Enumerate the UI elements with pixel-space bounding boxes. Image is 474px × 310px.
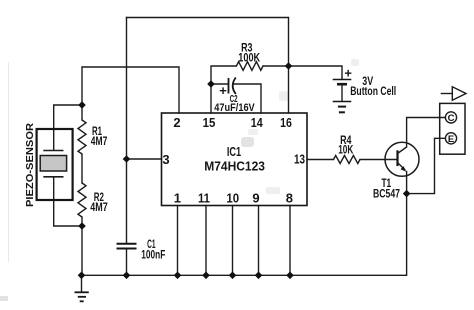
resistor R1 [78,120,86,154]
wire node pin3 branch [127,158,162,160]
wire ground stub [81,275,83,291]
svg-text:1: 1 [174,190,181,205]
terminal E circle [445,133,456,144]
wire collector to connector C [407,118,446,148]
ground under battery [333,102,352,113]
resistor R2 [78,183,86,217]
wire pin1 stub [177,206,179,276]
wire left vertical VCC to C1 [126,18,128,244]
transistor base bar [396,150,398,166]
piezo ceramic disc [40,156,66,172]
transistor collector diagonal [398,147,407,154]
node piezo/R2 [78,222,86,230]
terminal C circle [445,112,456,123]
transistor emitter arrowhead [401,166,407,172]
svg-text:2: 2 [173,115,180,130]
svg-text:4M7: 4M7 [91,134,108,148]
wire piezo bottom electrode [54,177,82,226]
wire pin16 stub [288,66,290,113]
wire ground rail with right riser to emitter node [82,194,407,276]
svg-text:BC547: BC547 [373,187,400,201]
battery BT1 plus plate [333,79,352,81]
node emitter/ground [403,190,411,198]
svg-text:15: 15 [203,115,216,130]
node rail/C1 [123,272,131,280]
svg-text:100nF: 100nF [141,247,165,261]
svg-text:14: 14 [251,115,264,130]
wire R1 top stub [81,105,83,120]
capacitor C1 [117,243,137,245]
IC U1 box [162,113,308,206]
svg-text:+: + [344,66,352,81]
svg-text:Button Cell: Button Cell [350,84,396,98]
transistor Q1 circle [385,142,419,176]
output connector box [440,103,465,154]
wire pin13 to R4 [307,159,334,161]
wire pin10 stub [232,206,234,276]
scan artifact line left edge [8,62,10,262]
node R3/pin16/battery [285,62,293,70]
wire pin8 stub [289,206,291,276]
wire pin11 stub [205,206,207,276]
node rail/pin9 [255,272,263,280]
wire emitter to junction [406,172,408,194]
svg-text:C: C [448,113,455,124]
piezo sensor box [37,129,73,200]
wire R4 to base [360,159,398,161]
node rail/pin8 [286,272,294,280]
wire R2 bottom to ground rail [81,217,83,275]
svg-text:8: 8 [286,190,293,205]
wire pin15 riser to R3 left [211,66,236,113]
wire top rail to R3-right node [127,18,289,67]
scan artifact smudges [0,59,359,301]
wire junction to connector E [407,138,446,193]
node pin3/VCC [123,155,131,163]
output arrow [441,93,453,95]
svg-text:11: 11 [198,190,210,205]
svg-text:E: E [448,134,454,145]
svg-text:100K: 100K [238,51,260,65]
svg-text:47uF/16V: 47uF/16V [214,102,255,114]
wire battery minus to ground symbol [341,85,343,101]
svg-text:13: 13 [294,152,305,167]
node rail/pin1 [174,272,182,280]
wire C1 to ground rail [126,249,128,276]
resistor R3 [236,62,263,71]
svg-text:9: 9 [252,190,259,205]
svg-text:3: 3 [162,152,169,167]
node rail/pin10 [229,272,237,280]
svg-text:16: 16 [280,115,292,130]
node rail/ground [78,272,86,280]
svg-text:M74HC123: M74HC123 [204,158,265,173]
wire piezo top electrode [54,105,82,150]
wire pin9 stub [258,206,260,276]
wire R3 right to node [263,65,289,67]
svg-text:10K: 10K [338,143,353,157]
svg-text:IC1: IC1 [227,144,241,159]
svg-text:10: 10 [226,190,239,205]
wire piezo/R1 node to pin 2 [82,67,179,113]
svg-text:+: + [219,83,227,98]
wire C2 right to pin14 [234,84,261,113]
node piezo/R1/pin2 [78,101,86,109]
ground main [75,292,89,301]
transistor emitter diagonal [398,163,406,171]
battery BT1 minus plate [337,83,347,86]
svg-text:4M7: 4M7 [90,200,108,214]
piezo top plate [43,150,63,152]
resistor R4 [334,156,361,164]
piezo bottom plate [43,176,63,178]
svg-text:PIEZO-SENSOR: PIEZO-SENSOR [24,123,36,207]
wire node to battery plus [289,66,343,79]
capacitor C2 (polarized) [228,78,230,94]
wire R1-R2 link [81,154,83,183]
node rail/pin11 [202,272,210,280]
node C2/pin15 [207,80,215,88]
wire C2 left [211,83,228,85]
